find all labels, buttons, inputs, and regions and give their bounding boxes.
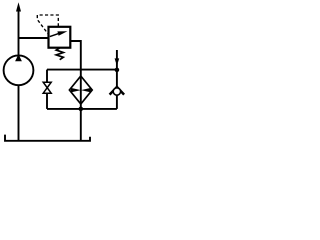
arrow: flow direction down into junction	[115, 58, 120, 66]
wire: return line from diamond down to tank	[80, 104, 82, 141]
wire: down to check valve	[116, 70, 118, 88]
wire: shut-off valve branch (lower segment)	[46, 93, 48, 109]
relief valve: internal arrow shaft	[50, 34, 59, 37]
check valve: ball	[113, 88, 120, 95]
wire: upper horizontal return line	[47, 69, 117, 71]
check valve: V seat	[110, 87, 125, 95]
tank: reservoir (open top)	[5, 135, 90, 141]
wire: pump outlet vertical supply line	[18, 9, 20, 56]
wire: check valve bottom to lower line	[116, 95, 118, 109]
flow element: right solid triangle	[81, 88, 91, 93]
shut-off valve: two triangles	[43, 82, 51, 93]
flow element: left solid triangle	[71, 88, 81, 93]
relief valve: internal arrow head	[57, 31, 67, 36]
pump: flow triangle (up, solid)	[15, 54, 22, 61]
junction: dot at return tee	[79, 107, 84, 112]
flow element: diamond	[69, 76, 92, 104]
pump: circle	[4, 55, 34, 85]
junction: dot at top of check valve	[115, 68, 120, 73]
wire: relief valve outlet to return line	[71, 41, 81, 76]
relief valve: pilot line (dashed)	[37, 15, 58, 35]
wire: lower horizontal line	[47, 108, 117, 110]
flow element: internal vertical line	[80, 76, 82, 104]
arrow: flow direction to system (up)	[16, 2, 21, 11]
wire: pump suction line down to tank	[18, 85, 20, 141]
relief valve: spring	[56, 48, 63, 60]
wire: inlet line from system (top right)	[116, 50, 118, 59]
wire: shut-off valve branch (upper segment)	[46, 70, 48, 83]
wire: branch from supply to relief valve inlet	[19, 37, 49, 39]
relief valve: body square	[49, 27, 71, 48]
